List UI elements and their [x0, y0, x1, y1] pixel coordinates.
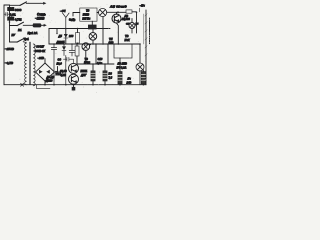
svg-text:R5/ Пч: R5/ Пч: [82, 17, 90, 20]
svg-text:0,008: 0,008: [124, 18, 131, 21]
resistor box top right: [126, 10, 132, 13]
module box A: [80, 8, 97, 21]
bottom rail: [4, 84, 146, 86]
wire module A bottom: [91, 21, 93, 25]
coupling capacitor to VT3: [64, 57, 74, 63]
lamp HL2: [129, 23, 135, 29]
svg-text:6,3в: 6,3в: [97, 61, 103, 65]
wire left column: [9, 5, 11, 42]
svg-text:Н4КЗ: Н4КЗ: [83, 13, 90, 16]
wire mains top: [26, 2, 43, 4]
diode Д5: [65, 29, 67, 45]
wire fuse to plug: [41, 24, 44, 26]
svg-text:10,0: 10,0: [57, 61, 63, 65]
svg-text:ПчХ: ПчХ: [125, 38, 130, 42]
fuse Пр1: [33, 24, 41, 28]
choke W1: [91, 71, 95, 81]
rail A y29: [49, 28, 110, 30]
svg-text:Д1-Д4: Д1-Д4: [46, 75, 55, 79]
switch B1.1: [10, 4, 21, 6]
transformer core: [28, 42, 30, 85]
svg-text:С29: С29: [109, 41, 114, 45]
svg-text:уч: уч: [135, 22, 139, 25]
module A left lead: [73, 12, 80, 14]
label box +6,3В: [55, 71, 62, 75]
wire to fuse: [23, 24, 33, 26]
frame right ticks: [145, 14, 147, 56]
svg-text:200: 200: [68, 34, 74, 38]
svg-text:С9: С9: [58, 58, 62, 62]
bridge leads: [45, 59, 58, 85]
svg-text:ВЗ: ВЗ: [109, 72, 113, 75]
rail B y44: [49, 43, 140, 45]
svg-text:П708: П708: [84, 62, 91, 65]
svg-text:−9,7В: −9,7В: [5, 61, 14, 65]
switch B1.2: [10, 25, 18, 27]
module box B: [114, 44, 132, 58]
svg-text:ТП: ТП: [109, 37, 113, 41]
svg-text:АМ 61чмФ: АМ 61чмФ: [109, 5, 127, 9]
svg-text:Усилитель ВЧ и ПЧ: Усилитель ВЧ и ПЧ: [149, 18, 151, 44]
transformer primary winding: [25, 43, 27, 85]
bottom sub-box: [37, 85, 51, 89]
right inner line: [143, 14, 145, 44]
resistor R dark on rail A: [88, 25, 96, 29]
bridge diode 2: [46, 70, 50, 74]
choke W2: [103, 71, 107, 81]
lamp/tube VTa: [89, 33, 97, 41]
chassis star junction: [21, 83, 24, 86]
transistor VT3: [69, 63, 79, 73]
stub x57: [56, 29, 58, 34]
svg-text:Д226Б: Д226Б: [56, 40, 65, 44]
svg-text:5,2В: 5,2В: [61, 74, 66, 77]
antenna W1: [63, 13, 70, 29]
junction dots: [53, 11, 144, 85]
capacitor x72: [69, 44, 75, 56]
svg-text:ТВ: ТВ: [86, 9, 90, 12]
svg-text:ТВ: ТВ: [125, 34, 129, 38]
transistor VT1: [112, 14, 121, 23]
node junction left column: [9, 21, 11, 23]
svg-text:ом: ом: [126, 22, 130, 25]
choke W4: [141, 72, 145, 85]
svg-text:ЛЗ 2НВ: ЛЗ 2НВ: [117, 62, 127, 66]
wire top right y12.2: [107, 11, 126, 13]
svg-text:Д226: Д226: [45, 79, 53, 83]
bridge rectifier Д1-Д4: [36, 63, 55, 81]
svg-text:10,2В: 10,2В: [60, 70, 67, 73]
rail C y64: [77, 63, 114, 65]
svg-text:8чВ: 8чВ: [71, 19, 76, 22]
svg-text:ДМГ: ДМГ: [80, 74, 87, 77]
svg-text:4,7М: 4,7М: [15, 17, 22, 21]
transistor VTb: [82, 43, 90, 51]
resistor R1: [8, 7, 15, 11]
wire HL1 down: [102, 17, 104, 44]
capacitor C1: [4, 13, 10, 16]
diode VD6: [63, 44, 65, 56]
svg-text:Д5: Д5: [58, 34, 63, 38]
svg-text:МП41: МП41: [81, 70, 88, 73]
lamp HL1: [99, 8, 107, 16]
svg-text:−24В: −24В: [38, 56, 45, 60]
bridge diode 1: [39, 70, 43, 74]
svg-text:С6С27: С6С27: [36, 44, 45, 48]
scan speckle (decorative): [5, 2, 146, 93]
resistor R upper x77.5: [76, 33, 80, 44]
wire x49 down: [48, 29, 50, 45]
transistor VT4: [69, 74, 79, 84]
svg-text:3300: 3300: [15, 8, 22, 12]
svg-text:24В: 24В: [126, 81, 132, 85]
svg-text:0,01: 0,01: [10, 13, 16, 17]
switch B1.3: [10, 41, 18, 43]
module A right lead: [97, 12, 99, 14]
svg-text:Лч: Лч: [127, 77, 132, 81]
svg-text:ТВ: ТВ: [85, 58, 89, 61]
node bridge-rail: [44, 84, 46, 86]
svg-text:−Пч: −Пч: [140, 3, 146, 7]
wire x108: [107, 44, 109, 64]
svg-text:~220В: ~220В: [35, 17, 45, 21]
capacitor С9: [51, 44, 56, 85]
secondary tap wires: [34, 45, 38, 47]
svg-text:−250В: −250В: [5, 47, 15, 51]
svg-text:Пр1 2А: Пр1 2А: [28, 31, 38, 35]
svg-text:В1: В1: [18, 28, 22, 32]
svg-text:7,4: 7,4: [109, 76, 113, 79]
lamp HL3: [136, 63, 144, 71]
wire x96: [95, 44, 97, 64]
resistor R lower x77: [75, 46, 79, 56]
transformer secondary winding: [33, 44, 35, 86]
svg-text:ВУ: ВУ: [12, 33, 16, 37]
resistor R2: [8, 17, 15, 21]
ground terminal blob: [72, 87, 76, 91]
svg-text:С10: С10: [98, 57, 103, 61]
choke W3: [118, 72, 122, 85]
svg-text:Тр1: Тр1: [24, 37, 30, 41]
frame left: [4, 5, 10, 85]
frame right: [145, 10, 147, 85]
svg-text:600В 6Х: 600В 6Х: [35, 49, 45, 53]
svg-text:−СЧ: −СЧ: [60, 9, 66, 13]
